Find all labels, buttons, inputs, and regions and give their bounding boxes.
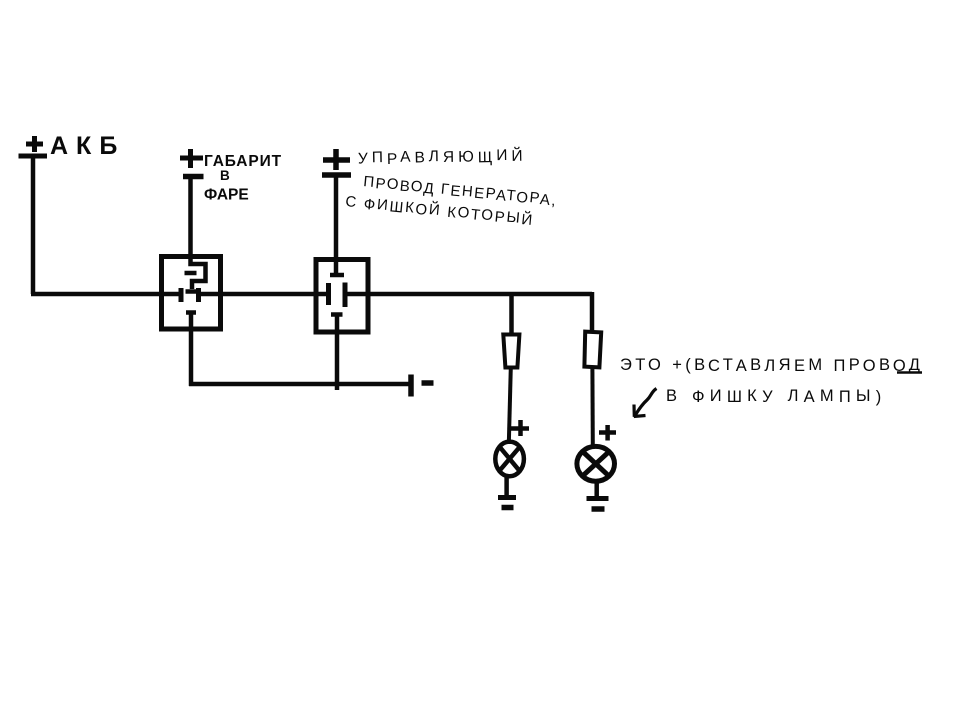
wire fuse F2 to lamp HL2 <box>590 368 594 447</box>
ground bar lamp HL1 <box>498 495 516 500</box>
wire junction drop to fuse F1 <box>509 294 514 335</box>
svg-text:В: В <box>220 168 230 183</box>
ground minus lamp HL1 <box>502 505 514 511</box>
relay K2 bottom terminal bar <box>331 312 343 317</box>
relay K1 coil dash <box>185 271 197 276</box>
terminal bar управляющий <box>322 172 351 178</box>
arrow to lamp <box>635 389 657 416</box>
relay K2 contact right tick <box>343 283 348 308</box>
lamp HL1 cross <box>500 447 520 471</box>
wire corner drop to fuse F2 <box>590 292 595 332</box>
node + at lamp HL1 <box>509 420 529 436</box>
wire main bus middle segment <box>199 292 329 297</box>
svg-text:УПРАВЛЯЮЩИЙ: УПРАВЛЯЮЩИЙ <box>358 147 527 169</box>
wire battery down to main bus <box>31 158 36 294</box>
node + (управляющий plus sign) <box>323 149 350 170</box>
wire lamp HL2 to ground <box>594 481 599 498</box>
lamp HL2 circle <box>577 446 615 481</box>
relay K2 box <box>316 260 368 333</box>
relay K1 bottom terminal bar <box>186 310 196 315</box>
relay K1 contact right tick <box>196 288 201 302</box>
ground bar lamp HL2 <box>587 496 609 501</box>
lamp HL1 circle <box>495 442 524 477</box>
wire fuse F1 to lamp HL1 <box>509 368 511 445</box>
ground terminal bar <box>408 375 414 397</box>
svg-text:АКБ: АКБ <box>50 132 125 160</box>
svg-text:ГАБАРИТ: ГАБАРИТ <box>204 153 282 170</box>
node + (battery plus sign) <box>26 136 43 152</box>
wire lamp HL1 to ground <box>504 476 509 497</box>
underline under ПРОВОД <box>897 371 922 374</box>
arrowhead <box>634 405 646 417</box>
wire relay K1 bottom to ground bus <box>189 313 194 386</box>
node + (габарит plus sign) <box>180 149 203 168</box>
relay K1 box <box>162 257 221 330</box>
svg-text:ФАРЕ: ФАРЕ <box>204 187 249 204</box>
relay K2 contact left tick <box>326 283 331 305</box>
svg-text:В ФИШКУ ЛАМПЫ): В ФИШКУ ЛАМПЫ) <box>666 387 886 406</box>
relay K1 coil bottom bar <box>186 289 197 294</box>
ground minus sign <box>422 380 434 386</box>
ground minus lamp HL2 <box>592 506 605 512</box>
node + at lamp HL2 <box>599 425 616 441</box>
wire габарит terminal into relay K1 coil <box>191 178 206 289</box>
relay K1 contact left tick <box>179 288 184 302</box>
fuse F1 <box>503 335 519 368</box>
fuse F2 <box>584 332 601 368</box>
terminal bar габарит <box>183 174 204 180</box>
wire управляющий terminal into relay K2 <box>334 176 339 273</box>
relay K2 top terminal bar <box>330 273 344 278</box>
wire main bus left segment <box>31 292 181 297</box>
wire main bus right segment <box>345 292 592 297</box>
wire relay K2 bottom to ground bus <box>335 315 340 390</box>
battery positive terminal bar <box>19 154 48 159</box>
svg-text:ЭТО +(ВСТАВЛЯЕМ ПРОВОД: ЭТО +(ВСТАВЛЯЕМ ПРОВОД <box>620 356 923 375</box>
lamp HL2 cross <box>582 451 609 476</box>
wire ground bus <box>189 382 410 387</box>
